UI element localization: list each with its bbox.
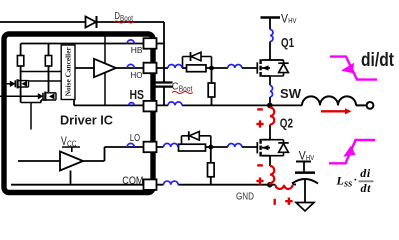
svg-text:HO: HO xyxy=(131,70,143,80)
svg-text:HB: HB xyxy=(131,45,143,55)
svg-text:Q2: Q2 xyxy=(280,117,293,131)
svg-text:V: V xyxy=(281,11,288,25)
svg-text:V: V xyxy=(299,148,306,162)
svg-text:di: di xyxy=(360,166,371,180)
svg-text:SW: SW xyxy=(280,86,302,101)
svg-text:Driver IC: Driver IC xyxy=(60,112,114,127)
svg-text:V: V xyxy=(61,134,67,148)
svg-text:dt: dt xyxy=(361,181,372,195)
svg-text:GND: GND xyxy=(236,191,254,203)
svg-text:HS: HS xyxy=(130,88,145,102)
svg-text:·: · xyxy=(354,174,358,186)
svg-text:LSS: LSS xyxy=(336,174,353,189)
svg-text:Boot: Boot xyxy=(179,84,193,93)
svg-text:LO: LO xyxy=(130,133,140,144)
svg-text:CC: CC xyxy=(67,140,77,149)
svg-text:Boot: Boot xyxy=(120,14,134,23)
svg-text:Q1: Q1 xyxy=(281,36,294,50)
svg-text:COM: COM xyxy=(122,175,143,187)
svg-text:HV: HV xyxy=(306,153,314,162)
svg-text:HV: HV xyxy=(288,16,296,25)
svg-text:Noise Canceller: Noise Canceller xyxy=(66,47,73,96)
svg-text:di/dt: di/dt xyxy=(361,50,395,71)
